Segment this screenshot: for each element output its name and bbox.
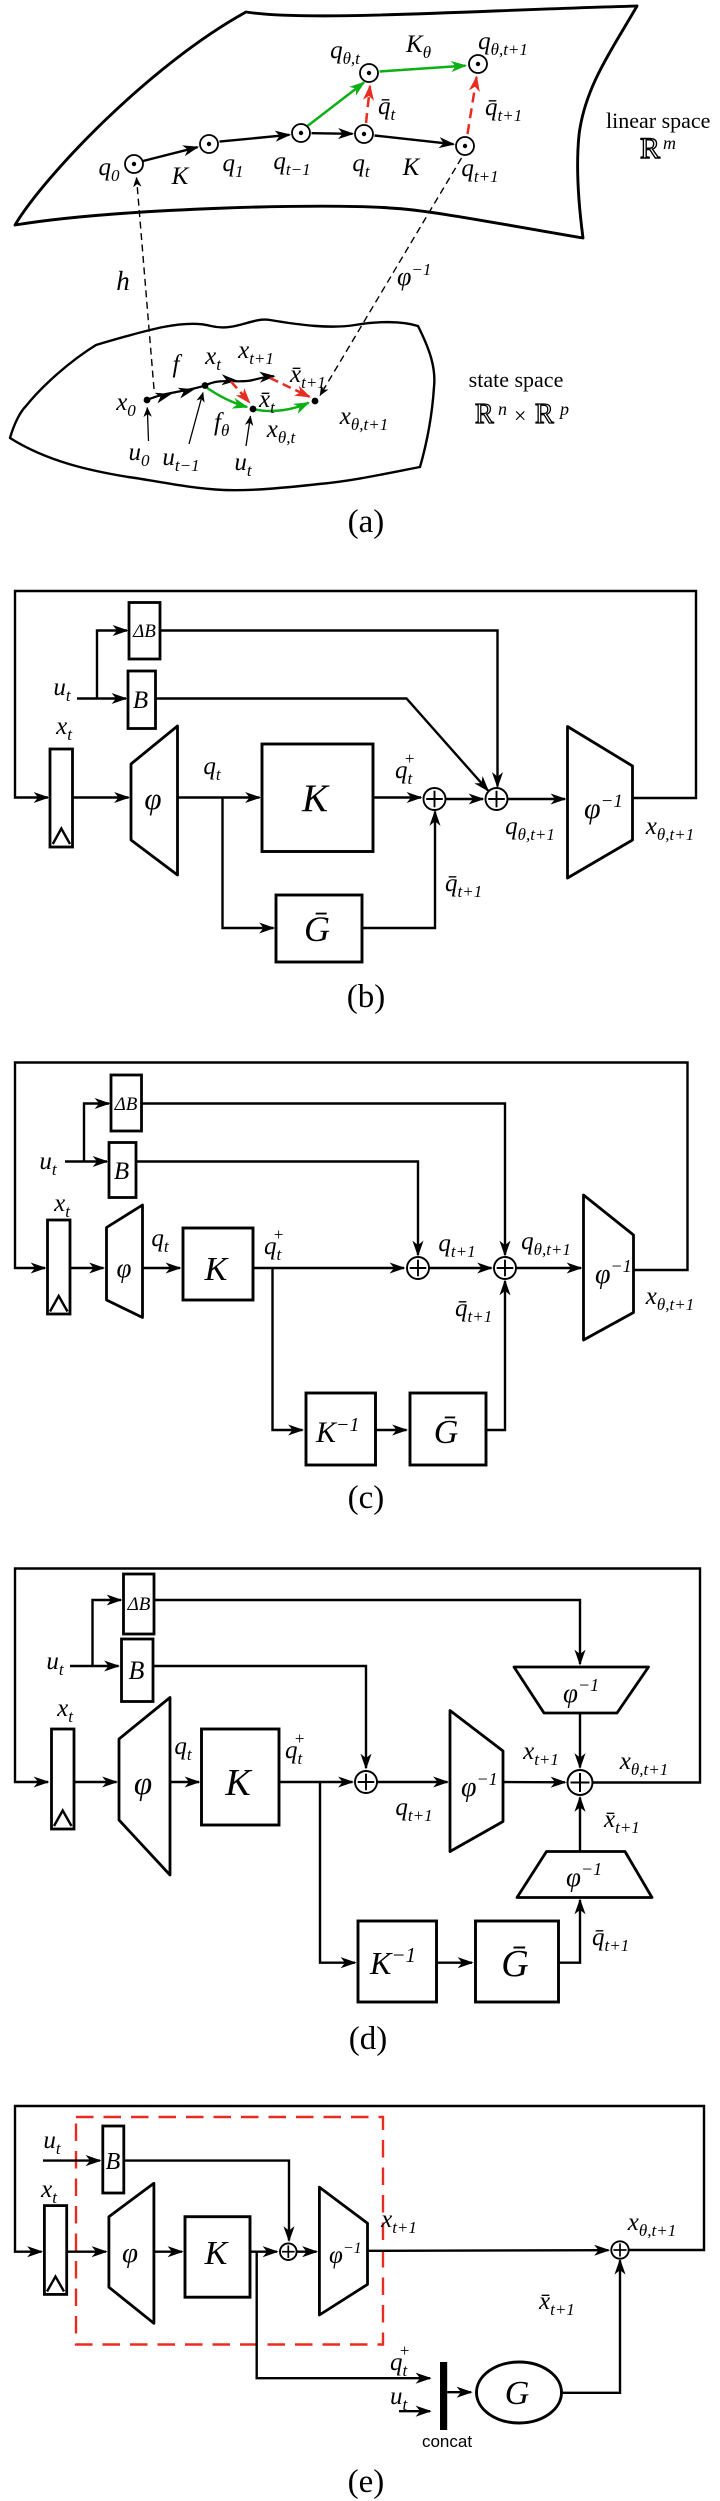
svg-text:x̄t+1: x̄t+1: [289, 361, 326, 392]
green wire f-theta xt to x-theta-t: [205, 387, 247, 408]
wire adder1 to adder2 (c): [429, 1267, 492, 1269]
wire adder1 to adder2 (b): [446, 798, 484, 800]
block K (c): [183, 1228, 253, 1300]
arrowhead 2 on x0-xt wire: [185, 390, 193, 392]
wire ut to B (d): [70, 1665, 119, 1667]
svg-text:R: R: [475, 399, 494, 430]
svg-text:x̄t: x̄t: [258, 386, 276, 417]
wire phi-inverse to adder2 (e): [368, 2249, 609, 2252]
svg-text:ut: ut: [53, 674, 72, 705]
wire G to adder2 (e): [562, 2260, 621, 2393]
wire Gbar to adder1 (b): [362, 812, 435, 929]
svg-text:ut: ut: [234, 449, 253, 480]
block K-inverse (d): [358, 1921, 437, 2002]
wire qt-plus branch to concat (e): [257, 2252, 430, 2379]
feedback wire top (e): [15, 2106, 704, 2252]
wire K-inverse to Gbar (d): [437, 1961, 473, 1963]
svg-text:xt: xt: [55, 713, 73, 744]
block K (e): [185, 2217, 250, 2298]
red dashed wire xt to xbar-t: [231, 382, 250, 403]
block B (b): [128, 671, 156, 729]
svg-text:xθ,t+1: xθ,t+1: [339, 403, 388, 434]
block B (e): [103, 2126, 124, 2193]
green wire K-theta q-theta-t to q-theta-t+1: [380, 66, 466, 72]
svg-text:h: h: [116, 266, 130, 296]
block phi (c): [107, 1205, 143, 1318]
svg-text:f: f: [173, 351, 183, 378]
wire DeltaB to upper phi-inverse (d): [154, 1600, 580, 1664]
svg-text:q̄t+1: q̄t+1: [455, 1295, 492, 1326]
wire adder2 to phi-inverse (b): [508, 798, 566, 800]
state-space manifold outline: [10, 320, 434, 491]
svg-text:ut−1: ut−1: [162, 444, 199, 475]
svg-text:B: B: [133, 687, 148, 714]
svg-text:qt+: qt+: [285, 1729, 305, 1768]
delay block (b): [50, 749, 73, 847]
svg-text:concat: concat: [422, 2432, 472, 2451]
svg-text:q̄t+1: q̄t+1: [485, 94, 522, 125]
black trajectory xt to xt+1: [205, 376, 274, 385]
svg-text:G: G: [505, 2375, 530, 2412]
wire B to adder1 (d): [153, 1666, 366, 1768]
svg-text:n: n: [498, 399, 507, 419]
svg-text:xθ,t: xθ,t: [266, 416, 297, 447]
svg-text:φ: φ: [122, 2237, 138, 2269]
block B (c): [109, 1143, 136, 1198]
wire B to adder2 diagonal (b): [156, 699, 489, 791]
svg-text:qt+1: qt+1: [461, 155, 498, 186]
wire q1 to qt-1: [220, 135, 290, 142]
node q1: [200, 135, 218, 153]
svg-text:q0: q0: [99, 154, 121, 185]
svg-text:qt: qt: [174, 1733, 193, 1764]
svg-text:K: K: [204, 2235, 230, 2272]
point x0: [144, 397, 151, 404]
svg-text:xt+1: xt+1: [522, 1738, 559, 1769]
wire Gbar to adder2 (c): [486, 1281, 505, 1430]
wire B to adder1 (e): [124, 2161, 289, 2241]
svg-text:ut: ut: [46, 1648, 65, 1679]
svg-text:qθ,t+1: qθ,t+1: [478, 28, 528, 59]
arrowhead mid on xt-xt+1 wire: [228, 379, 236, 381]
adder2 (c): [494, 1257, 516, 1279]
block Gbar (b): [276, 895, 362, 962]
wire qt-1 to qt: [312, 132, 353, 135]
wire B to adder1 (c): [136, 1162, 418, 1256]
svg-text:qt−1: qt−1: [273, 148, 310, 179]
svg-text:q̄t+1: q̄t+1: [592, 1924, 629, 1955]
svg-text:φ: φ: [144, 781, 161, 816]
block DeltaB (d): [124, 1574, 155, 1634]
svg-text:p: p: [558, 399, 569, 419]
label Rn x Rp blackboard: [475, 399, 569, 430]
svg-text:q̄t: q̄t: [378, 93, 397, 124]
delay block (e): [44, 2206, 66, 2295]
point x-theta-t: [250, 406, 257, 413]
wire delay to phi (b): [73, 796, 129, 798]
adder1 (d): [355, 1771, 377, 1793]
svg-text:xt+1: xt+1: [380, 2206, 417, 2237]
wire q0 to q1: [143, 147, 198, 161]
svg-text:(b): (b): [347, 979, 385, 1015]
block phi (e): [109, 2183, 154, 2323]
svg-text:Ḡ: Ḡ: [501, 1943, 528, 1985]
red dashed wire qt to q-theta-t: [366, 86, 370, 123]
wire ut to B (c): [65, 1160, 107, 1162]
svg-text:x0: x0: [115, 389, 136, 420]
wire Gbar to lower phi-inverse (d): [559, 1900, 581, 1963]
wire ut to concat (e): [399, 2410, 430, 2412]
wire ut branch to DeltaB (b): [97, 631, 127, 699]
wire K to adder1 (e): [250, 2250, 277, 2252]
green wire qt-1 to q-theta-t: [308, 83, 365, 127]
green wire x-theta-t to x-theta-t+1: [253, 403, 309, 411]
block upper phi-inverse horizontal (d): [514, 1667, 649, 1713]
svg-text:(e): (e): [348, 2464, 385, 2500]
svg-text:qθ,t+1: qθ,t+1: [521, 1228, 571, 1259]
svg-text:x̄t+1: x̄t+1: [603, 1806, 640, 1837]
dashed map phi-inverse wire: [320, 158, 462, 396]
block mid phi-inverse (d): [450, 1711, 503, 1852]
svg-text:B: B: [129, 1656, 145, 1685]
svg-text:qθ,t: qθ,t: [330, 37, 361, 68]
svg-text:K: K: [224, 1762, 252, 1804]
svg-text:ΔB: ΔB: [127, 1594, 151, 1615]
svg-text:R: R: [535, 399, 554, 430]
svg-text:Kθ: Kθ: [405, 31, 431, 62]
block phi (b): [131, 726, 178, 875]
adder1 (b): [424, 788, 446, 810]
svg-text:fθ: fθ: [214, 409, 229, 440]
adder2 (d): [568, 1770, 593, 1795]
svg-text:K: K: [204, 1251, 230, 1288]
node q-theta-t+1: [469, 55, 487, 73]
node qt: [355, 125, 373, 143]
adder1 (e): [280, 2243, 297, 2260]
block Gbar (c): [410, 1393, 486, 1465]
svg-text:R: R: [640, 132, 660, 165]
block DeltaB (c): [111, 1075, 142, 1131]
wire K to adder1 (c): [253, 1267, 404, 1269]
block Gbar (d): [476, 1921, 559, 2002]
red dashed wire xt+1 to x-theta-t+1: [270, 378, 310, 397]
wire ut to B (e): [43, 2159, 100, 2161]
svg-text:xθ,t+1: xθ,t+1: [645, 813, 694, 844]
block phi (d): [119, 1698, 170, 1876]
svg-text:qθ,t+1: qθ,t+1: [505, 813, 555, 844]
node q-theta-t: [360, 64, 378, 82]
svg-text:ut: ut: [390, 2383, 409, 2414]
svg-text:xt: xt: [40, 2176, 58, 2207]
svg-text:linear space: linear space: [606, 108, 710, 133]
svg-text:xt: xt: [204, 343, 222, 374]
svg-text:Ḡ: Ḡ: [304, 909, 330, 949]
svg-text:qt+: qt+: [395, 749, 415, 788]
feedback wire top (d): [15, 1569, 700, 1783]
wire phi to K (d): [170, 1781, 199, 1783]
svg-text:Ḡ: Ḡ: [434, 1414, 459, 1451]
svg-text:qt: qt: [151, 1225, 170, 1256]
arrowhead f on x0-xt wire: [162, 394, 170, 396]
svg-text:(a): (a): [348, 504, 385, 540]
svg-text:xθ,t+1: xθ,t+1: [645, 1283, 694, 1314]
svg-text:xt: xt: [53, 1190, 71, 1221]
svg-text:φ: φ: [134, 1766, 152, 1802]
wire delay to phi (d): [74, 1781, 117, 1783]
input arrow ut lower: [246, 416, 251, 446]
svg-text:xt+1: xt+1: [237, 337, 274, 368]
svg-text:(d): (d): [349, 2021, 387, 2057]
wire upper phi-inverse to adder2 (d): [579, 1713, 581, 1768]
svg-text:K: K: [171, 163, 190, 190]
wire concat to G (e): [447, 2391, 471, 2393]
adder1 (c): [407, 1257, 429, 1279]
wire K-inverse to Gbar (c): [376, 1429, 407, 1431]
input arrow ut-1: [189, 393, 203, 445]
red dashed koopman box (e): [76, 2117, 383, 2345]
delay block (c): [48, 1220, 71, 1314]
wire K to adder1 (d): [279, 1781, 353, 1783]
red dashed wire qt+1 to q-theta-t+1: [468, 77, 477, 134]
node q0: [125, 155, 143, 173]
point x-theta-t+1: [312, 398, 319, 405]
svg-text:qt: qt: [203, 753, 222, 784]
block K (b): [262, 744, 373, 852]
wire qt to qt+1: [375, 136, 454, 145]
concat bar (e): [440, 2362, 447, 2430]
svg-text:u0: u0: [129, 439, 151, 470]
svg-text:qt+: qt+: [264, 1225, 284, 1264]
wire ut branch to DeltaB (c): [84, 1104, 109, 1162]
wire DeltaB to adder2 (c): [142, 1104, 506, 1256]
block K-inverse (c): [306, 1393, 376, 1465]
black trajectory x0 to xt: [147, 386, 205, 401]
svg-text:φ: φ: [117, 1253, 132, 1283]
wire mid phi-inverse to adder2 (d): [503, 1781, 565, 1784]
block B (d): [122, 1639, 154, 1702]
block G ellipse (e): [477, 2362, 562, 2423]
wire DeltaB to adder2 (b): [160, 631, 498, 787]
wire qt-plus branch down (d): [320, 1782, 355, 1963]
adder2 (e): [611, 2241, 628, 2258]
svg-text:ΔB: ΔB: [114, 1094, 138, 1115]
svg-text:K: K: [301, 777, 330, 820]
svg-text:qt+1: qt+1: [395, 1794, 432, 1825]
wire delay to phi (c): [70, 1267, 104, 1269]
svg-text:qt+1: qt+1: [438, 1230, 475, 1261]
wire delay to phi (e): [67, 2250, 106, 2252]
svg-text:q̄t+1: q̄t+1: [445, 870, 482, 901]
svg-text:qt+: qt+: [390, 2341, 410, 2380]
node qt+1: [456, 137, 474, 155]
svg-text:×: ×: [514, 403, 526, 428]
delay block (d): [52, 1729, 75, 1829]
wire adder1 to mid phi-inverse (d): [377, 1781, 448, 1783]
svg-text:ut: ut: [39, 1148, 58, 1179]
svg-text:ut: ut: [43, 2127, 62, 2158]
svg-text:B: B: [106, 2149, 121, 2175]
wire phi to K (c): [143, 1267, 181, 1269]
wire adder2 to phi-inverse (c): [516, 1267, 581, 1269]
svg-text:(c): (c): [348, 1480, 385, 1516]
wire lower phi-inverse to adder2 (d): [579, 1798, 581, 1852]
svg-text:m: m: [663, 133, 676, 153]
adder2 (b): [486, 788, 508, 810]
feedback wire top (c): [15, 1063, 688, 1271]
svg-text:K: K: [402, 154, 421, 181]
svg-text:φ−1: φ−1: [397, 260, 431, 291]
svg-text:qt: qt: [352, 150, 371, 181]
block phi-inverse (b): [568, 727, 633, 879]
svg-text:x̄t+1: x̄t+1: [538, 2288, 575, 2319]
svg-text:xθ,t+1: xθ,t+1: [619, 1748, 668, 1779]
dashed map h wire: [137, 178, 155, 390]
svg-text:B: B: [114, 1158, 129, 1185]
svg-text:q1: q1: [223, 150, 244, 181]
wire qt-plus branch down (c): [273, 1268, 303, 1430]
block lower phi-inverse horizontal (d): [517, 1852, 652, 1898]
block phi-inverse (e): [319, 2187, 367, 2315]
wire ut branch to DeltaB (d): [93, 1600, 122, 1666]
feedback wire top (b): [15, 591, 696, 798]
wire phi to K (b): [178, 796, 260, 798]
svg-text:xθ,t+1: xθ,t+1: [627, 2209, 676, 2240]
block DeltaB (b): [129, 603, 160, 660]
svg-text:ΔB: ΔB: [132, 621, 156, 642]
node qt-1: [292, 124, 310, 142]
block K (d): [202, 1729, 280, 1825]
block phi-inverse (c): [584, 1195, 634, 1340]
wire phi to K (e): [154, 2250, 182, 2252]
wire K to adder1 (b): [373, 796, 421, 798]
linear-space manifold outline: [15, 6, 637, 238]
svg-text:state space: state space: [469, 367, 564, 392]
wire adder1 to phi-inverse (e): [297, 2250, 317, 2252]
input arrow u0: [147, 408, 148, 442]
wire qt branch to Gbar (b): [223, 798, 274, 929]
wire ut to B (b): [77, 697, 126, 699]
svg-text:xt: xt: [56, 1695, 74, 1726]
label R^m blackboard: [640, 132, 676, 165]
point xt: [202, 382, 209, 389]
